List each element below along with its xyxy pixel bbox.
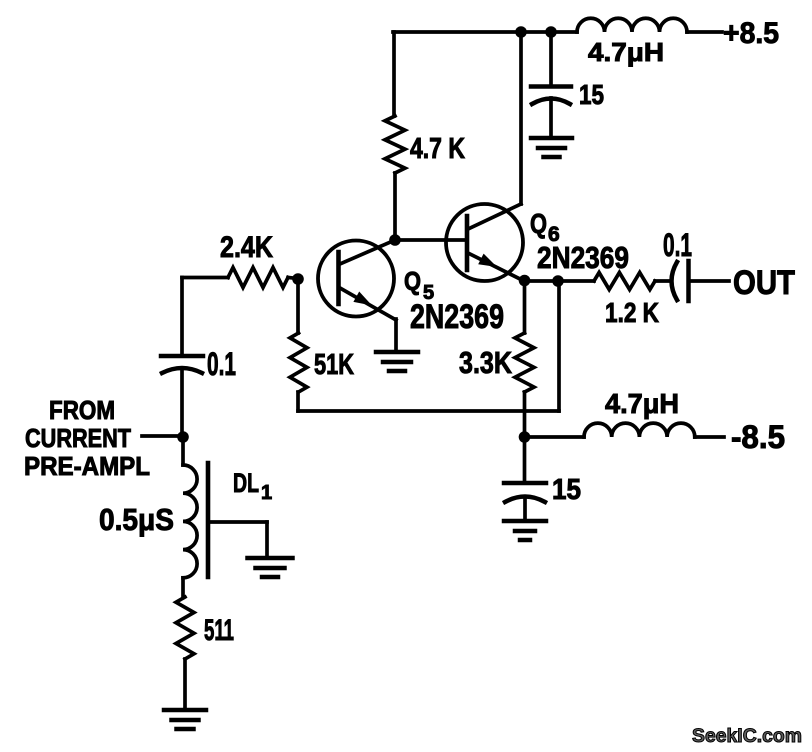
value label 511 <box>204 614 234 647</box>
svg-text:1: 1 <box>261 482 272 504</box>
svg-text:0.5μS: 0.5μS <box>99 502 174 537</box>
value label 1.2K <box>605 297 659 328</box>
ground (DL1) <box>248 558 293 577</box>
net OUT <box>733 264 795 302</box>
svg-text:0.1: 0.1 <box>663 227 692 263</box>
svg-text:4.7μH: 4.7μH <box>588 37 664 67</box>
transistor Q5 <box>318 240 396 320</box>
net +8.5 supply <box>723 17 779 50</box>
svg-text:Q: Q <box>530 208 547 239</box>
resistor 4.7K <box>385 116 405 173</box>
value label 0.5uS <box>99 502 174 537</box>
svg-text:2.4K: 2.4K <box>220 231 273 264</box>
svg-text:PRE-AMPL: PRE-AMPL <box>24 451 150 481</box>
ground (top bypass cap) <box>531 138 572 157</box>
wire feedback to Q6 emitter <box>298 281 559 411</box>
ref label DL1 <box>233 468 272 504</box>
svg-text:1.2 K: 1.2 K <box>605 297 659 328</box>
ref label Q6 <box>530 208 560 246</box>
value label 3.3K <box>459 345 512 380</box>
node rail-bypass junction <box>545 26 557 38</box>
wire top +8.5 rail <box>393 30 577 34</box>
value label 51K <box>314 349 354 381</box>
delay line DL1 plate <box>206 463 211 577</box>
value label 0.1 (input) <box>207 346 236 382</box>
svg-text:SeekIC.com: SeekIC.com <box>692 726 802 747</box>
svg-text:3.3K: 3.3K <box>459 345 512 380</box>
svg-text:+8.5: +8.5 <box>723 17 779 50</box>
wire input coupling corner <box>180 278 184 355</box>
svg-text:OUT: OUT <box>733 264 795 302</box>
wire 4.7K to interstage node <box>393 173 397 240</box>
svg-text:4.7μH: 4.7μH <box>605 388 679 419</box>
svg-text:DL: DL <box>233 468 259 498</box>
resistor 511 <box>176 597 194 659</box>
part label 2N2369 (Q6) <box>537 240 629 275</box>
watermark SeekIC.com <box>692 726 802 747</box>
wire emitter rail <box>524 435 584 439</box>
value label 4.7K <box>410 133 465 165</box>
wire DL1 tap <box>208 522 267 558</box>
value label 4.7uH (top) <box>588 37 664 67</box>
net label FROM CURRENT PRE-AMPL <box>24 395 150 481</box>
wire junction to Q6 base <box>395 238 467 242</box>
resistor 1.2K <box>594 273 670 290</box>
svg-text:Q: Q <box>404 266 421 296</box>
value label 0.1 (output) <box>663 227 692 263</box>
svg-text:15: 15 <box>579 79 604 110</box>
svg-text:511: 511 <box>204 614 234 647</box>
capacitor 0.1 (output coupling) <box>672 261 730 301</box>
svg-text:CURRENT: CURRENT <box>25 423 131 453</box>
part label 2N2369 (Q5) <box>410 298 504 336</box>
ground (input) <box>164 710 206 729</box>
node Q5 base junction <box>292 273 304 285</box>
transistor Q6 <box>446 204 523 281</box>
wire emitter node <box>524 279 594 283</box>
wire 511 to ground <box>183 659 187 710</box>
value label 4.7uH (bottom) <box>605 388 679 419</box>
svg-text:4.7 K: 4.7 K <box>410 133 465 165</box>
svg-text:2N2369: 2N2369 <box>410 298 504 336</box>
wire rail to 4.7K <box>392 32 396 116</box>
resistor 3.3K <box>515 281 534 437</box>
wire Q6 collector to rail <box>519 32 523 204</box>
node output junction <box>552 275 564 287</box>
ground (bottom bypass cap) <box>504 521 546 540</box>
wire Q5 emitter to ground <box>394 319 398 352</box>
capacitor 15 (top bypass) <box>531 87 571 139</box>
svg-text:2N2369: 2N2369 <box>537 240 629 275</box>
node input junction <box>177 431 189 443</box>
delay line DL1 coil <box>183 437 197 597</box>
wire rail to bypass cap 15 <box>549 32 553 85</box>
ref label Q5 <box>404 266 434 304</box>
value label 2.4K <box>220 231 273 264</box>
svg-text:15: 15 <box>552 474 581 506</box>
value label 15 (bottom) <box>552 474 581 506</box>
resistor 51K <box>290 279 307 411</box>
capacitor 15 (bottom bypass) <box>504 437 546 521</box>
net -8.5 supply <box>731 419 785 455</box>
node Q5-collector/Q6-base junction <box>389 234 401 246</box>
capacitor 0.1 (input coupling) <box>161 356 203 437</box>
svg-text:-8.5: -8.5 <box>731 419 785 455</box>
ground (Q5 emitter) <box>376 352 418 371</box>
svg-text:FROM: FROM <box>49 395 115 425</box>
svg-text:0.1: 0.1 <box>207 346 236 382</box>
wire input stub <box>142 434 183 438</box>
value label 15 (top) <box>579 79 604 110</box>
resistor 2.4K <box>182 268 298 288</box>
node Q6 emitter junction <box>519 275 531 287</box>
node -8.5 rail junction <box>519 431 531 443</box>
svg-text:51K: 51K <box>314 349 354 381</box>
inductor 4.7uH (top) <box>577 18 722 32</box>
node rail-collector junction <box>515 26 527 38</box>
inductor 4.7uH (bottom) <box>584 423 724 437</box>
